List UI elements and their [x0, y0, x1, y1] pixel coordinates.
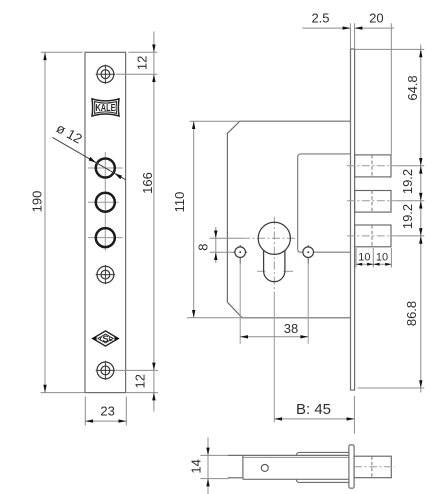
faceplate bar (bottom view) [349, 445, 354, 488]
screw hole (bottom view) [261, 464, 268, 471]
euro cylinder hole [258, 222, 290, 254]
svg-text:8: 8 [195, 244, 210, 251]
dimension 38 [240, 321, 308, 339]
extension line screw right (38) [307, 264, 309, 344]
svg-text:E: E [109, 337, 113, 343]
extension lines top [349, 23, 351, 49]
case rear stub (bottom view) [228, 477, 243, 479]
screw hole top (front view) [96, 65, 115, 84]
extension line plate bottom [41, 392, 85, 394]
KALE logo [92, 99, 119, 116]
case inner line (bottom view) [243, 456, 350, 458]
svg-text:86.8: 86.8 [404, 301, 419, 326]
bolt hole 1 (o12) [96, 159, 115, 178]
extension line bottom screw center [116, 369, 158, 371]
dimension 10 10 [356, 248, 391, 268]
crosshair hole 1 [88, 167, 123, 169]
extension line case bottom (110) [187, 317, 242, 319]
case top edge (bottom view) [228, 454, 350, 456]
front view faceplate outline [85, 52, 126, 392]
dimension 110 [172, 121, 196, 318]
case left edge (bottom view) [242, 455, 244, 479]
extension line screw left (38) [239, 264, 241, 344]
dimension 20 [355, 10, 394, 30]
svg-text:19.2: 19.2 [400, 204, 415, 229]
svg-text:38: 38 [284, 321, 298, 336]
cylinder center line vertical [273, 217, 275, 292]
crosshair hole 3 [88, 237, 123, 239]
dimension 14 [189, 438, 229, 494]
cylinder housing outline [298, 154, 351, 252]
center line through bolt holes [104, 152, 106, 251]
extension line top screw center [116, 73, 157, 75]
bolt housing top (bottom view) [296, 452, 349, 455]
svg-text:KALE: KALE [96, 102, 116, 114]
latch bolt 2 [355, 191, 391, 213]
extension line plate top [41, 51, 83, 53]
slot center ticks [257, 270, 265, 272]
svg-text:14: 14 [189, 459, 204, 473]
latch bolt 1 [355, 155, 391, 177]
dimension 2.5 [302, 10, 350, 30]
screw hole bottom (front view) [96, 361, 115, 380]
dimension 23 [85, 397, 126, 426]
dimension line right chain 64.8 / 19.2 / 19.2 / 86.8 [400, 45, 423, 393]
screw hole middle (front view) [96, 265, 115, 284]
dimension 190 [29, 52, 46, 392]
svg-text:166: 166 [140, 172, 155, 194]
svg-text:19.2: 19.2 [400, 169, 415, 194]
bolt housing bottom (bottom view) [296, 479, 349, 482]
svg-text:110: 110 [172, 192, 187, 213]
svg-text:64.8: 64.8 [405, 75, 420, 100]
svg-text:2.5: 2.5 [311, 10, 329, 25]
svg-text:10: 10 [376, 252, 388, 264]
extension lines right [355, 48, 425, 50]
svg-text:23: 23 [100, 403, 114, 418]
svg-text:20: 20 [369, 10, 383, 25]
svg-text:10: 10 [358, 252, 370, 264]
faceplate strip (side view) [351, 49, 355, 390]
svg-text:12: 12 [134, 56, 149, 70]
dimension chain 12 / 166 / 12 [132, 32, 155, 412]
svg-text:12: 12 [132, 374, 147, 388]
deadbolt (bottom view) [354, 456, 391, 478]
dimension B: 45 [274, 396, 354, 434]
cylinder center line horizontal [242, 237, 297, 239]
diameter leader o12 [53, 120, 126, 179]
fixing screw hole right [303, 245, 314, 264]
bolt hole 2 (o12) [96, 193, 115, 212]
TSE logo [92, 331, 120, 346]
fixing screw hole left [233, 245, 247, 264]
svg-text:190: 190 [29, 191, 44, 213]
svg-text:B: 45: B: 45 [296, 401, 331, 418]
lock case outline [227, 121, 350, 318]
extension line case top (110) [190, 120, 240, 122]
crosshair hole 2 [88, 201, 119, 203]
dimension 8 [195, 227, 242, 263]
latch bolt 3 [355, 225, 391, 247]
case bottom edge (bottom view) [243, 478, 350, 480]
bolt hole 3 (o12) [96, 228, 115, 247]
